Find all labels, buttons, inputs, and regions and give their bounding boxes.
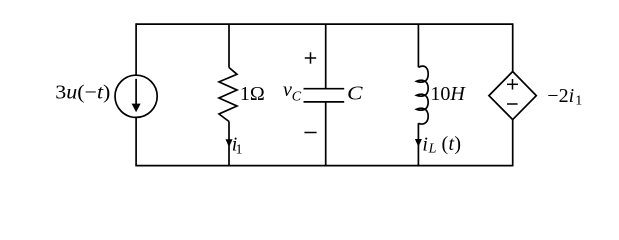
svg-text:10H: 10H — [430, 83, 466, 105]
svg-text:i: i — [422, 133, 428, 155]
svg-text:1Ω: 1Ω — [240, 83, 265, 105]
svg-text:v: v — [283, 79, 292, 101]
dependent source E1 diamond — [489, 72, 536, 120]
label vC — [283, 79, 302, 105]
wire left branch top — [135, 23, 137, 75]
svg-text:3u(−t): 3u(−t) — [55, 80, 110, 103]
svg-text:L: L — [428, 141, 437, 156]
wire capacitor branch bottom — [325, 102, 327, 166]
label minus vC — [304, 132, 316, 134]
resistor R 1ohm — [219, 68, 237, 122]
wire right branch bottom — [512, 120, 514, 167]
svg-text:C: C — [292, 89, 302, 104]
wire inductor branch top — [417, 24, 419, 67]
label C — [347, 82, 363, 104]
current arrow i1 — [226, 139, 233, 147]
wire resistor branch bottom — [228, 122, 230, 166]
label plus vC — [305, 52, 316, 63]
inductor L 10H — [417, 66, 429, 124]
current source I1 — [115, 75, 157, 117]
svg-text:1: 1 — [575, 93, 582, 108]
wire left branch bottom — [135, 117, 137, 166]
wire capacitor branch top — [325, 24, 327, 89]
wire right branch top — [512, 23, 514, 71]
capacitor C plates — [304, 89, 345, 102]
label 3u(-t) — [55, 80, 110, 103]
label i1 — [232, 133, 243, 157]
label plus inside diamond — [507, 79, 518, 90]
wire inductor branch bottom — [417, 123, 419, 165]
wire resistor branch top — [228, 24, 230, 67]
svg-text:−2i: −2i — [547, 85, 574, 107]
svg-text:C: C — [347, 82, 363, 104]
label 1ohm — [240, 83, 265, 105]
wire bottom rail — [136, 165, 513, 167]
label iL(t) — [422, 133, 461, 156]
svg-text:(t): (t) — [442, 133, 462, 155]
svg-text:1: 1 — [236, 143, 243, 158]
label 10H — [430, 83, 466, 105]
label minus inside diamond — [507, 103, 518, 105]
label -2i1 — [547, 85, 582, 108]
current arrow iL — [415, 139, 422, 147]
wire top rail — [136, 23, 513, 25]
